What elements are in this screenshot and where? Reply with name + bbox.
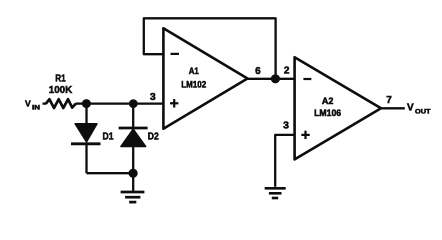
junction ground node xyxy=(129,169,138,178)
diode D2 xyxy=(119,128,148,147)
svg-text:A2: A2 xyxy=(322,96,334,107)
label R1 xyxy=(55,74,66,85)
svg-text:7: 7 xyxy=(386,95,392,106)
A2 inverting input minus sign xyxy=(303,78,311,80)
junction N1 xyxy=(82,99,91,108)
junction N2 xyxy=(129,99,138,108)
value label LM106 xyxy=(314,108,341,118)
wire ground node to ground xyxy=(132,173,134,191)
pin 6 label of A1 xyxy=(255,66,261,77)
A1 inverting input minus sign xyxy=(171,53,180,55)
pin 7 label of A2 xyxy=(386,95,392,106)
wire R1 to node N1 xyxy=(76,102,91,104)
svg-text:2: 2 xyxy=(284,65,290,76)
wire D1 cathode down xyxy=(85,144,87,173)
wire A2 output to VOUT xyxy=(381,107,405,109)
feedback wire A1 output to A1 inverting input xyxy=(144,18,276,79)
svg-text:A1: A1 xyxy=(189,66,200,77)
label D2 xyxy=(148,131,159,142)
junction N3 xyxy=(271,74,280,83)
svg-text:D1: D1 xyxy=(103,131,114,142)
wire node N3 to A2 pin 2 xyxy=(275,78,294,80)
ground symbol at A2 non-inverting input xyxy=(265,188,286,198)
wire node N1 to node N2 xyxy=(86,102,133,104)
A2 non-inverting input plus sign xyxy=(301,131,309,139)
svg-text:OUT: OUT xyxy=(415,109,431,116)
pin 3 label of A2 xyxy=(283,120,289,132)
svg-text:3: 3 xyxy=(150,91,156,103)
wire A1 output to node N3 xyxy=(247,78,276,80)
diode D1 xyxy=(71,124,101,144)
svg-text:D2: D2 xyxy=(148,131,159,142)
pin 3 label of A1 xyxy=(150,91,156,103)
node VOUT label xyxy=(407,103,431,116)
wire node N1 to D1 anode xyxy=(85,104,87,125)
A1 non-inverting input plus sign xyxy=(170,99,178,107)
svg-text:3: 3 xyxy=(283,120,289,132)
wire VIN to R1 xyxy=(43,102,47,104)
value label LM102 xyxy=(181,80,206,90)
svg-text:R1: R1 xyxy=(55,74,66,85)
wire D2 anode to ground node xyxy=(132,146,134,173)
resistor R1 xyxy=(46,99,76,108)
wire node N2 to D2 cathode xyxy=(132,104,134,128)
svg-text:V: V xyxy=(407,103,414,114)
value label 100K xyxy=(49,85,73,96)
svg-text:LM102: LM102 xyxy=(181,80,206,90)
label A1 xyxy=(189,66,200,77)
wire node N2 to A1 pin 3 xyxy=(133,102,163,104)
wire A2 pin 3 to ground xyxy=(275,135,294,187)
svg-text:LM106: LM106 xyxy=(314,108,341,118)
op-amp A2 xyxy=(295,57,381,159)
svg-text:100K: 100K xyxy=(49,85,73,96)
svg-text:6: 6 xyxy=(255,66,261,77)
wire bottom D1 to ground node xyxy=(87,172,134,174)
ground symbol under diodes xyxy=(121,192,145,202)
svg-text:IN: IN xyxy=(32,105,41,112)
label D1 xyxy=(103,131,114,142)
op-amp A1 xyxy=(163,28,247,128)
pin 2 label of A2 xyxy=(284,65,290,76)
svg-text:V: V xyxy=(25,99,31,109)
label A2 xyxy=(322,96,334,107)
node VIN label xyxy=(25,99,41,112)
